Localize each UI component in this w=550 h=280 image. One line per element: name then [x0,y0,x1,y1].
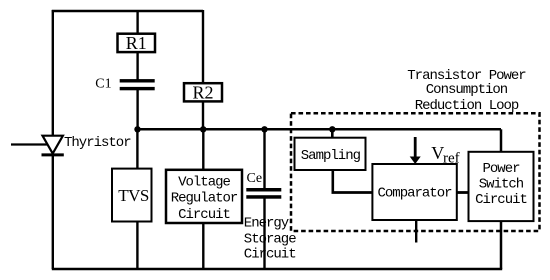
svg-text:C1: C1 [95,77,111,92]
wire bottom bus [52,268,502,271]
label Vref [431,143,459,167]
wire Ce top [263,129,265,188]
wire R1 to C1 [136,52,138,80]
svg-text:Storage: Storage [244,231,296,247]
sampling box [295,138,366,170]
wire sampling stub [331,129,334,138]
wire comparator bottom stub [415,220,417,243]
thyristor [42,136,64,155]
svg-text:Sampling: Sampling [301,148,361,164]
svg-text:R1: R1 [126,33,147,53]
comparator box [372,164,456,220]
wire voltage regulator top [202,129,204,170]
node dot on bus (sampling branch) [329,126,335,132]
label Energy Storage Circuit [244,216,296,263]
svg-text:Circuit: Circuit [244,246,296,262]
svg-text:Regulator: Regulator [171,191,238,207]
wire comparator output [457,191,469,194]
svg-text:Energy: Energy [244,216,289,232]
svg-text:Voltage: Voltage [178,175,230,191]
svg-text:Power: Power [482,161,520,177]
wire voltage regulator bottom [202,223,204,270]
wire main bus [138,128,502,131]
wire top bus [52,10,203,12]
node dot on bus (C1/TVS branch) [134,126,140,132]
svg-text:Circuit: Circuit [475,192,527,208]
svg-text:Thyristor: Thyristor [64,135,131,151]
svg-text:Reduction Loop: Reduction Loop [415,98,519,114]
wire R1 top [136,10,138,34]
capacitor Ce [246,188,281,199]
wire bus corner down to power switch [500,129,503,152]
wire gate lead [11,143,48,145]
svg-text:Switch: Switch [479,177,524,193]
Vref arrow [410,137,421,164]
power switch circuit box [469,152,534,221]
capacitor C1 [120,79,155,90]
svg-text:R2: R2 [192,82,213,102]
svg-text:Ce: Ce [247,171,263,186]
dashed loop box [291,113,540,231]
label Transistor Power Consumption Reduction Loop [407,68,526,114]
resistor R1 [118,33,156,53]
resistor R2 [184,82,222,102]
node dot on bus (Ce branch) [261,126,267,132]
wire sampling output horizontal [332,191,373,194]
wire R2 top [202,10,204,84]
node dot on bus (R2/regulator branch) [200,126,206,132]
svg-text:Consumption: Consumption [426,82,508,98]
wire power switch bottom [500,221,503,269]
wire R2 to bus [202,101,204,129]
wire TVS top [136,129,138,169]
wire C1 to bus [136,90,138,129]
voltage regulator circuit box U1 [166,170,242,223]
svg-text:ref: ref [443,151,460,167]
svg-text:Comparator: Comparator [377,186,452,202]
wire sampling output vertical [331,170,334,193]
svg-text:TVS: TVS [118,186,149,205]
wire Ce bottom [263,198,265,269]
svg-text:Circuit: Circuit [178,207,230,223]
wire TVS bottom [136,221,138,269]
TVS box [112,169,152,222]
wire left vertical branch [52,10,54,269]
